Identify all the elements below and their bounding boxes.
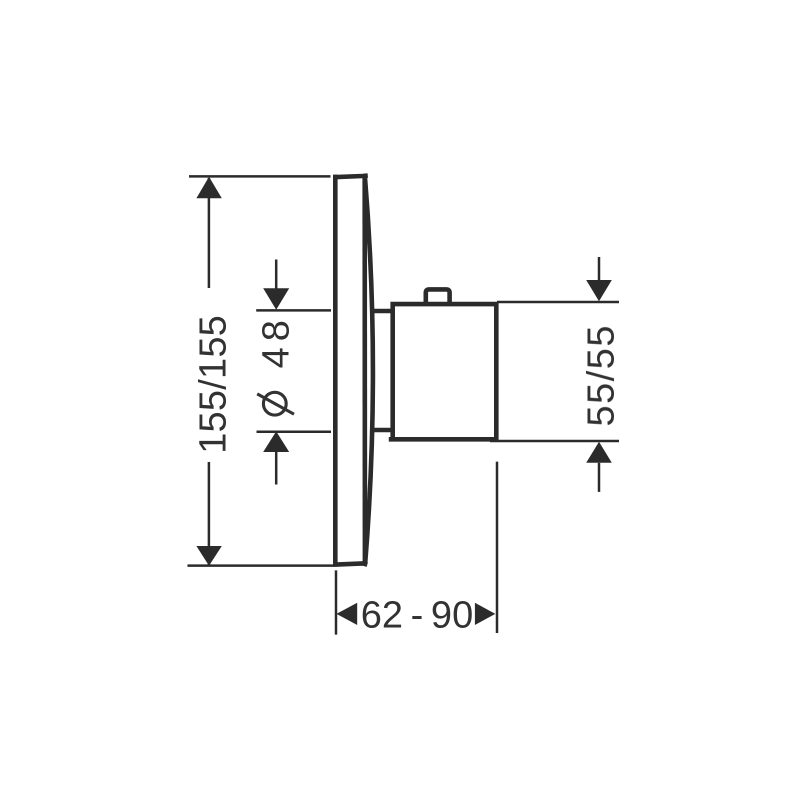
svg-text:48: 48 xyxy=(256,314,298,368)
svg-text:62 - 90: 62 - 90 xyxy=(361,595,473,637)
svg-text:155/155: 155/155 xyxy=(193,315,235,454)
svg-text:55/55: 55/55 xyxy=(581,324,623,427)
